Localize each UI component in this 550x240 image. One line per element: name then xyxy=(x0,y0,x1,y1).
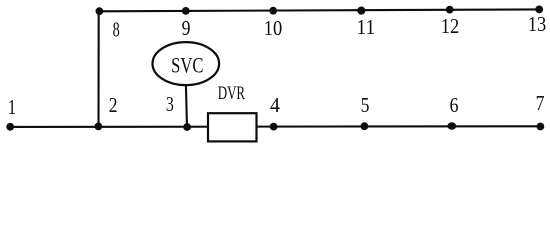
svg-text:13: 13 xyxy=(528,13,547,36)
node bus 11 xyxy=(357,7,365,15)
svg-text:9: 9 xyxy=(182,18,191,41)
node bus 12 xyxy=(446,6,454,14)
node bus 2 xyxy=(95,123,103,131)
svg-text:SVC: SVC xyxy=(171,54,203,78)
node bus 5 xyxy=(361,122,369,130)
wire SVC drop to bus3 xyxy=(186,85,187,128)
node bus 1 xyxy=(6,123,14,131)
node bus 7 xyxy=(537,123,545,131)
svg-text:4: 4 xyxy=(270,95,280,118)
svg-text:8: 8 xyxy=(113,18,120,41)
node bus 8 xyxy=(96,7,104,15)
svg-text:1: 1 xyxy=(8,96,16,119)
svg-text:DVR: DVR xyxy=(218,84,246,104)
node bus 13 xyxy=(535,5,543,13)
node bus 3 xyxy=(183,123,191,131)
DVR box xyxy=(208,113,257,141)
svg-text:2: 2 xyxy=(109,94,118,117)
node bus 9 xyxy=(182,7,190,15)
svg-text:3: 3 xyxy=(166,93,174,117)
wire top feeder bus8-bus13 xyxy=(99,9,540,11)
SVC ellipse xyxy=(153,42,220,85)
node bus 4 xyxy=(270,123,278,131)
node bus 10 xyxy=(269,7,277,15)
svg-text:7: 7 xyxy=(536,93,545,116)
wire left vertical bus8-bus2 xyxy=(97,11,99,127)
svg-text:12: 12 xyxy=(441,15,459,38)
wire bottom feeder bus1-bus7 xyxy=(10,125,541,128)
svg-text:6: 6 xyxy=(450,95,459,118)
svg-text:11: 11 xyxy=(357,16,376,39)
node bus 6 xyxy=(447,122,456,130)
svg-text:10: 10 xyxy=(264,17,283,40)
svg-text:5: 5 xyxy=(361,95,370,118)
